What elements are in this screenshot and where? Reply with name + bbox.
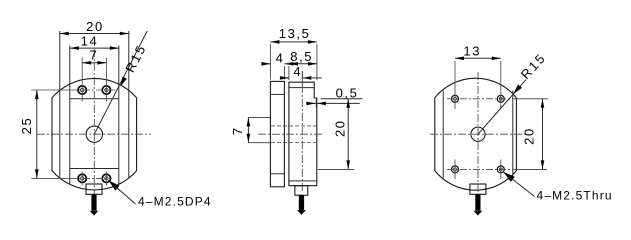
body vertical center line [301, 71, 303, 191]
horizontal center line [258, 133, 322, 135]
thru hole bottom-right [497, 166, 504, 173]
connector box back [470, 184, 486, 194]
dimension 8,5 [289, 49, 317, 80]
svg-text:4: 4 [276, 50, 285, 65]
can side line right [512, 91, 514, 178]
body inner line top [289, 87, 314, 89]
front outline (R15 oval flange) [52, 78, 137, 190]
connector box side [295, 186, 308, 196]
body inner line bottom [289, 180, 317, 182]
svg-text:25: 25 [19, 117, 34, 135]
body side line right [128, 31, 130, 178]
svg-text:13,5: 13,5 [279, 26, 311, 41]
bottom hole row center line [31, 177, 70, 179]
can bottom edge [70, 168, 119, 170]
flange plate side [270, 81, 284, 186]
dimension 13,5 [270, 26, 317, 80]
svg-text:14: 14 [81, 33, 99, 48]
screw hole bottom-left M2.5 [78, 174, 86, 182]
svg-text:7: 7 [90, 47, 99, 62]
dimension 14 [70, 33, 119, 50]
can top edge [70, 98, 119, 100]
motor body side with 0.5 step [289, 82, 317, 186]
dimension 0,5 step [306, 86, 362, 108]
cable back [474, 194, 483, 215]
dimension 20 [60, 19, 129, 35]
horizontal center line [37, 133, 151, 135]
flange tangent line top [270, 93, 284, 95]
svg-text:20: 20 [333, 119, 348, 137]
connector box [86, 184, 102, 194]
svg-text:4–M2.5Thru: 4–M2.5Thru [537, 188, 613, 202]
back outline (R15 oval flange) [435, 78, 517, 190]
dimension 20 hole spacing [514, 99, 549, 170]
screw hole bottom-right M2.5 [102, 174, 110, 182]
center hole back [471, 127, 485, 141]
svg-text:8,5: 8,5 [290, 49, 313, 64]
dimension 7 [82, 47, 106, 64]
svg-text:13: 13 [463, 43, 481, 58]
dimension 20 body height [318, 99, 354, 170]
svg-text:4: 4 [293, 64, 302, 79]
horizontal center line back [430, 133, 526, 135]
cable [90, 194, 99, 215]
center hole [86, 126, 102, 142]
vertical center line back [477, 72, 479, 196]
inner line right [118, 46, 120, 185]
svg-text:20: 20 [86, 19, 104, 34]
svg-text:7: 7 [230, 126, 245, 135]
thru hole top-right [497, 95, 504, 102]
bottom hole row line back [447, 168, 513, 170]
inner line left (14 wide) [69, 46, 71, 185]
dimension 13 [455, 43, 501, 60]
screw hole top-left M2.5 [78, 86, 86, 94]
hidden line center hole bottom [271, 142, 317, 144]
label 4-M2.5Thru leader [501, 169, 612, 202]
vertical center line [93, 49, 95, 196]
top hole row line back [447, 98, 513, 100]
dimension 7 boss [230, 117, 271, 142]
hole column line right back [500, 61, 502, 109]
top hole row center line [31, 89, 70, 91]
dimension 4 depth [280, 64, 322, 85]
svg-text:20: 20 [522, 127, 537, 145]
dimension 25 [19, 90, 39, 178]
flange tangent line bottom [270, 173, 284, 175]
hole column line right [105, 58, 107, 102]
dimension 4 flange [261, 50, 293, 79]
cable side [297, 195, 306, 215]
radius leader R15 back [478, 50, 549, 134]
body side line left (20 wide can) [59, 31, 61, 178]
hole column line left back [454, 61, 456, 109]
svg-text:0,5: 0,5 [336, 86, 359, 101]
can side line left [442, 91, 444, 178]
hole column line left [81, 58, 83, 102]
radius leader R15 [94, 31, 149, 134]
svg-text:4–M2.5DP4: 4–M2.5DP4 [138, 195, 212, 209]
screw hole top-right M2.5 [102, 86, 110, 94]
thru hole top-left [452, 95, 459, 102]
hidden line center hole top [271, 125, 317, 127]
label 4-M2.5DP4 leader [106, 178, 211, 209]
thru hole bottom-left [452, 166, 459, 173]
